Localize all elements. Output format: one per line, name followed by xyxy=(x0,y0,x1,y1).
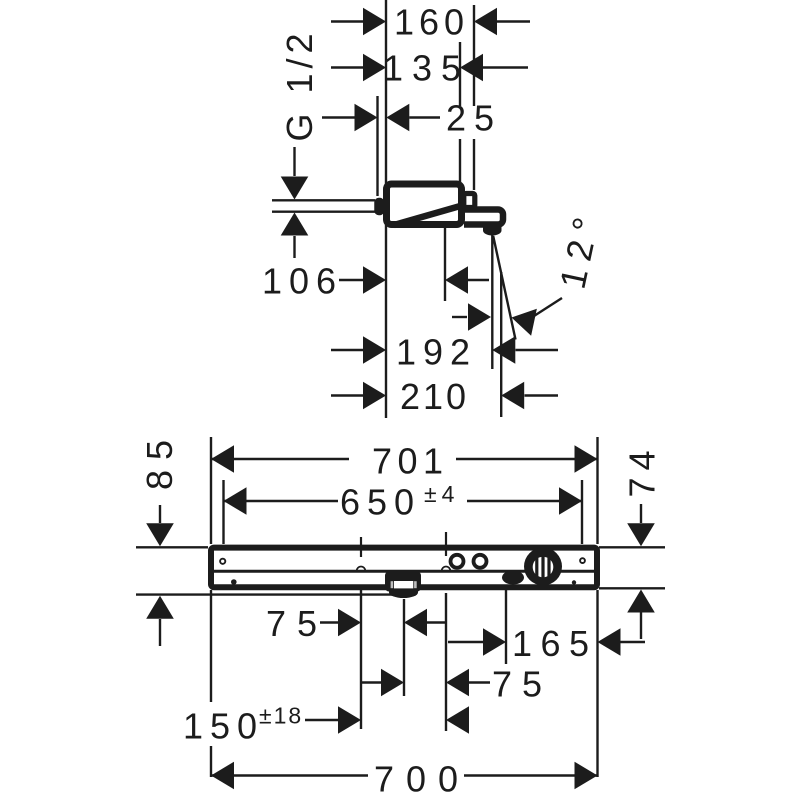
svg-text:106: 106 xyxy=(262,261,343,302)
svg-text:160: 160 xyxy=(394,2,469,43)
svg-text:150: 150 xyxy=(183,705,264,746)
svg-text:210: 210 xyxy=(400,376,469,417)
svg-text:±4: ±4 xyxy=(424,481,459,507)
svg-text:165: 165 xyxy=(512,623,598,664)
svg-text:700: 700 xyxy=(374,758,470,799)
svg-text:74: 74 xyxy=(622,443,663,497)
svg-text:650: 650 xyxy=(340,482,421,523)
svg-text:25: 25 xyxy=(446,98,502,139)
svg-text:±18: ±18 xyxy=(259,703,303,729)
svg-text:192: 192 xyxy=(396,332,477,373)
svg-text:85: 85 xyxy=(139,430,180,490)
svg-text:701: 701 xyxy=(372,441,449,482)
svg-text:75: 75 xyxy=(492,664,552,705)
svg-text:135: 135 xyxy=(383,48,470,89)
svg-text:75: 75 xyxy=(266,603,328,644)
svg-text:G 1/2: G 1/2 xyxy=(279,28,320,141)
